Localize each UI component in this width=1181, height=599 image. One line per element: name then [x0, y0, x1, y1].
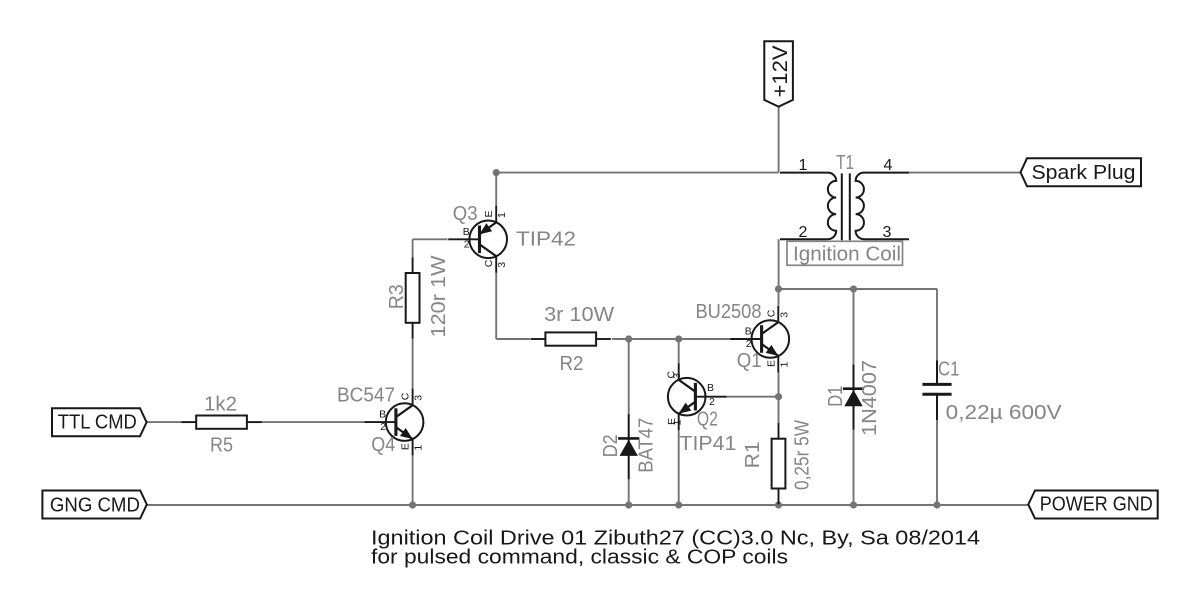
svg-text:1k2: 1k2: [204, 393, 237, 416]
svg-text:TIP42: TIP42: [516, 227, 576, 250]
diode D1 1N4007: [843, 365, 864, 430]
svg-text:Spark Plug: Spark Plug: [1032, 161, 1136, 184]
flag Spark Plug: [1021, 158, 1142, 186]
resistor R1: [772, 423, 786, 504]
capacitor C1: [922, 361, 951, 421]
svg-text:1: 1: [413, 445, 425, 451]
junction D1 GND: [850, 501, 857, 508]
junction top rail / Q3: [493, 169, 500, 176]
wire: GND rail: [147, 504, 1029, 506]
svg-text:D1: D1: [824, 386, 847, 407]
wire: D1 bottom: [853, 429, 855, 505]
svg-text:Ignition Coil: Ignition Coil: [793, 243, 901, 266]
flag POWER GND: [1028, 491, 1157, 519]
svg-text:GNG CMD: GNG CMD: [50, 494, 140, 517]
svg-text:2: 2: [380, 421, 386, 433]
svg-text:B: B: [463, 226, 470, 238]
svg-text:3: 3: [671, 373, 683, 379]
wire: D2 bottom: [628, 479, 630, 505]
svg-text:BC547: BC547: [337, 384, 395, 407]
svg-text:3: 3: [496, 262, 508, 268]
svg-text:0,25r 5W: 0,25r 5W: [791, 419, 814, 490]
flag GNG CMD: [42, 491, 146, 519]
svg-text:1: 1: [778, 362, 790, 368]
wire: Q2 collector up to R2 rail: [678, 339, 680, 364]
junction mid rail left: [775, 285, 782, 292]
svg-text:E: E: [400, 443, 412, 450]
svg-text:C: C: [483, 259, 495, 267]
transistor Q4 BC547: [365, 389, 425, 456]
svg-text:R2: R2: [560, 352, 584, 375]
wire: C1 top: [936, 289, 938, 361]
svg-text:B: B: [379, 409, 386, 421]
wire: D1 top: [853, 289, 855, 365]
wire: C1 bottom: [936, 420, 938, 505]
svg-text:Q4: Q4: [371, 433, 395, 456]
svg-text:C: C: [400, 392, 412, 400]
svg-text:1: 1: [799, 157, 808, 174]
resistor R5: [182, 416, 262, 429]
junction Q2 GND: [675, 501, 682, 508]
junction C1 GND: [933, 501, 940, 508]
wire: T1 pin4 to Spark Plug: [909, 172, 1021, 174]
svg-text:C: C: [765, 309, 777, 317]
flag TTL CMD: [52, 408, 147, 436]
wire: D2 top: [628, 339, 630, 415]
svg-text:R5: R5: [210, 433, 233, 456]
transistor Q2 TIP41: [666, 363, 727, 430]
junction Q1 emitter node: [775, 393, 782, 400]
junction mid rail D1: [850, 285, 857, 292]
wire: node to R1: [778, 397, 780, 424]
svg-text:1: 1: [496, 212, 508, 218]
wire: Q2 base to Q1 emitter node: [727, 396, 779, 398]
svg-text:BAT47: BAT47: [634, 418, 657, 473]
wire: R5 to Q4 base: [261, 421, 365, 423]
wire: +12V drop: [778, 107, 780, 173]
junction R1 GND: [775, 501, 782, 508]
svg-text:3: 3: [778, 312, 790, 318]
junction D2 GND: [625, 501, 632, 508]
svg-text:0,22µ 600V: 0,22µ 600V: [946, 401, 1062, 424]
wire: Q3 base to R3 corner: [413, 238, 448, 240]
wire: TTL CMD to R5: [147, 421, 182, 423]
resistor R2: [531, 332, 611, 345]
svg-text:1: 1: [672, 420, 684, 426]
svg-text:E: E: [483, 210, 495, 217]
svg-text:Q1: Q1: [737, 349, 762, 372]
wire: Q1 collector stub: [778, 289, 780, 305]
svg-text:T1: T1: [836, 151, 854, 174]
svg-text:D2: D2: [599, 434, 622, 457]
svg-text:BU2508: BU2508: [696, 300, 762, 323]
wire: top rail Q3 to T1: [496, 172, 778, 174]
power flag +12V: [764, 41, 793, 106]
junction Q4 emitter GND: [409, 501, 416, 508]
diode D2 BAT47: [618, 414, 639, 479]
svg-text:for pulsed command, classic &: for pulsed command, classic & COP coils: [371, 545, 788, 568]
wire: R3 to Q4 collector: [412, 338, 414, 390]
svg-text:2: 2: [709, 396, 715, 408]
svg-text:Q3: Q3: [453, 202, 478, 225]
wire: Q2 emitter to GND: [678, 430, 680, 505]
svg-text:3r 10W: 3r 10W: [544, 303, 615, 326]
svg-text:R3: R3: [385, 284, 408, 309]
svg-text:TIP41: TIP41: [679, 432, 736, 455]
svg-text:+12V: +12V: [768, 45, 792, 98]
svg-text:2: 2: [464, 238, 470, 250]
svg-text:120r 1W: 120r 1W: [427, 255, 450, 338]
junction D2 / R2 rail: [625, 335, 632, 342]
svg-text:POWER GND: POWER GND: [1040, 493, 1153, 516]
svg-text:3: 3: [883, 224, 892, 241]
svg-text:C1: C1: [938, 358, 959, 381]
wire: R2 to Q1 base: [612, 338, 731, 340]
wire: Q4 emitter to GND: [412, 456, 414, 505]
svg-text:Q2: Q2: [697, 408, 718, 431]
svg-text:4: 4: [884, 157, 893, 174]
wire: Q3 emitter up: [495, 173, 497, 206]
wire: T1 pin2 down to Q1 collector node: [778, 239, 780, 289]
transistor Q1 BU2508: [730, 306, 790, 373]
svg-text:TTL CMD: TTL CMD: [58, 410, 137, 433]
wire: mid rail to C1: [779, 288, 937, 290]
svg-text:1N4007: 1N4007: [858, 360, 881, 436]
svg-text:3: 3: [413, 395, 425, 401]
junction Q2 / R2 rail: [675, 335, 682, 342]
svg-text:E: E: [765, 360, 777, 367]
resistor R3: [406, 257, 420, 338]
transformer T1: [780, 157, 909, 241]
wire: Q3 collector down to R2: [495, 273, 497, 340]
label Ignition Coil: [787, 241, 903, 265]
svg-text:R1: R1: [741, 441, 764, 468]
wire: Q1 emitter to node: [778, 372, 780, 397]
svg-text:B: B: [707, 382, 714, 394]
transistor Q3 TIP42: [448, 206, 508, 273]
svg-text:2: 2: [799, 224, 808, 241]
svg-text:B: B: [745, 326, 752, 338]
